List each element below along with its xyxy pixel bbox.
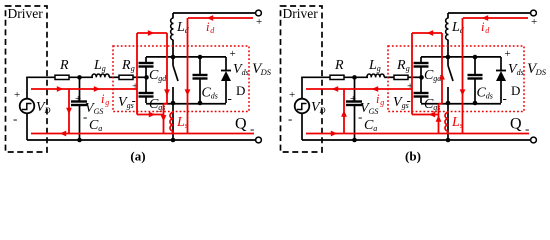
svg-text:+: +	[531, 16, 537, 28]
wire Rg to gate	[408, 76, 422, 78]
red gate loop wire (horizontal)	[31, 88, 137, 90]
wire Lg to Rg	[109, 76, 119, 78]
svg-text:a: a	[98, 124, 102, 133]
svg-text:D: D	[236, 83, 245, 98]
capacitor Cgd	[145, 57, 147, 63]
+ supply terminal	[531, 10, 537, 16]
red gate loop wire (horizontal)	[306, 88, 412, 90]
svg-text:ds: ds	[517, 68, 524, 77]
svg-text:g: g	[102, 64, 106, 73]
red source return via Ls	[439, 103, 443, 105]
+ supply terminal	[256, 10, 262, 16]
red jog to source return	[137, 114, 164, 116]
svg-text:L: L	[368, 58, 377, 73]
svg-text:a: a	[373, 124, 377, 133]
wire R to Lg	[344, 76, 368, 78]
gate node	[144, 75, 149, 80]
svg-text:L: L	[93, 58, 102, 73]
inductor Ld	[172, 13, 174, 18]
svg-text:+: +	[230, 48, 236, 60]
resistor Rg	[119, 75, 133, 79]
svg-text:GS: GS	[369, 107, 379, 116]
red drain loop top wire id	[188, 17, 253, 19]
svg-text:-: -	[288, 111, 292, 126]
svg-text:R: R	[334, 58, 344, 73]
svg-text:Q: Q	[235, 116, 247, 133]
red loop vertical at gate	[411, 33, 413, 115]
svg-text:D: D	[319, 106, 326, 115]
red drain loop top wire id	[463, 17, 528, 19]
MOSFET top wire (drain)	[146, 56, 226, 58]
red bottom return rail	[306, 133, 529, 135]
svg-text:+: +	[14, 89, 20, 101]
svg-text:Driver: Driver	[283, 6, 319, 21]
capacitor Cgs	[420, 77, 422, 93]
switch (MOSFET channel)	[172, 57, 174, 66]
source down wire through Ls	[447, 103, 449, 140]
bypass capacitor Ca branch	[354, 77, 356, 101]
svg-text:L: L	[176, 115, 185, 130]
svg-text:L: L	[451, 20, 460, 35]
body diode D	[500, 57, 502, 71]
svg-text:+: +	[350, 93, 356, 105]
source node junctions	[171, 101, 176, 106]
svg-text:g: g	[131, 64, 135, 73]
bottom rail junctions	[77, 138, 82, 143]
bottom rail wire	[27, 139, 256, 141]
wire VD to R	[26, 77, 28, 99]
svg-text:s: s	[460, 121, 463, 130]
bypass capacitor Ca branch	[79, 77, 81, 101]
svg-text:ds: ds	[211, 92, 218, 101]
svg-text:+: +	[505, 48, 511, 60]
switch (MOSFET channel)	[447, 57, 449, 66]
red loop top horizontal	[137, 32, 167, 34]
capacitor Cds	[199, 57, 201, 75]
svg-text:R: R	[396, 58, 406, 73]
body diode D	[225, 57, 227, 71]
svg-text:-: -	[13, 111, 17, 126]
svg-text:g: g	[380, 98, 384, 107]
top rail wire	[173, 12, 256, 14]
capacitor Cds	[474, 57, 476, 75]
svg-text:GS: GS	[94, 107, 104, 116]
svg-text:gd: gd	[158, 74, 167, 83]
svg-text:g: g	[406, 64, 410, 73]
red source return via Ls	[164, 103, 168, 105]
common source inductance Ls (red)	[445, 113, 448, 132]
source down wire through Ls	[172, 103, 174, 140]
svg-text:(a): (a)	[130, 149, 145, 164]
wire R to Lg	[69, 76, 93, 78]
source wire	[421, 103, 501, 105]
svg-text:-: -	[83, 109, 87, 124]
common source inductance Ls (red)	[170, 113, 173, 132]
source node junctions	[446, 101, 451, 106]
red loop beside Ca	[343, 89, 345, 134]
inductor Ld	[447, 13, 449, 18]
red bottom return rail	[31, 133, 254, 135]
inductor Lg	[92, 74, 109, 77]
red drain loop vertical	[462, 18, 464, 134]
source wire	[146, 103, 226, 105]
svg-text:R: R	[59, 58, 69, 73]
svg-text:ds: ds	[242, 68, 249, 77]
svg-text:-: -	[228, 91, 232, 106]
resistor Rg	[394, 75, 408, 79]
voltage source VD	[295, 99, 310, 114]
svg-text:Driver: Driver	[8, 6, 44, 21]
red dotted MOSFET boundary box	[388, 46, 524, 112]
red loop through switch channel	[441, 33, 443, 104]
svg-text:+: +	[289, 89, 295, 101]
svg-text:DS: DS	[535, 67, 547, 77]
red loop beside Ca	[68, 89, 70, 134]
inductor Lg	[367, 74, 384, 77]
wire VD to R	[301, 77, 303, 99]
drain node junctions	[171, 55, 176, 60]
top rail wire	[448, 12, 531, 14]
MOSFET top wire (drain)	[421, 56, 501, 58]
svg-text:gs: gs	[402, 101, 409, 110]
svg-text:D: D	[44, 106, 51, 115]
driver dashed box (b)	[281, 6, 323, 152]
svg-text:R: R	[121, 58, 131, 73]
svg-text:-: -	[358, 109, 362, 124]
svg-text:(b): (b)	[405, 149, 421, 164]
capacitor Cgs	[145, 77, 147, 93]
gate node	[419, 75, 424, 80]
svg-text:g: g	[377, 64, 381, 73]
red loop vertical at gate	[136, 33, 138, 115]
svg-text:DS: DS	[260, 67, 272, 77]
red drain loop vertical	[187, 18, 189, 134]
svg-text:L: L	[451, 115, 460, 130]
bottom rail wire	[302, 139, 531, 141]
wire Rg to gate	[133, 76, 147, 78]
svg-text:g: g	[105, 98, 109, 107]
wire VD to bottom rail	[26, 113, 28, 140]
svg-text:s: s	[185, 121, 188, 130]
svg-text:-: -	[503, 91, 507, 106]
drain node junctions	[446, 55, 451, 60]
- supply terminal	[256, 137, 262, 143]
driver dashed box (a)	[6, 6, 48, 152]
red jog to source return	[412, 114, 439, 116]
svg-text:gs: gs	[127, 101, 134, 110]
wire VD to bottom rail	[301, 113, 303, 140]
red loop top horizontal	[412, 32, 442, 34]
resistor R	[55, 75, 69, 79]
node junction (Ca branch)	[77, 75, 82, 80]
voltage source VD	[20, 99, 35, 114]
bottom rail junctions	[352, 138, 357, 143]
svg-text:Q: Q	[510, 116, 522, 133]
wire Lg to Rg	[384, 76, 394, 78]
svg-text:L: L	[176, 20, 185, 35]
svg-text:D: D	[511, 83, 520, 98]
svg-text:ds: ds	[486, 92, 493, 101]
resistor R	[330, 75, 344, 79]
red dotted MOSFET boundary box	[113, 46, 249, 112]
node junction (Ca branch)	[352, 75, 357, 80]
capacitor Cgd	[420, 57, 422, 63]
- supply terminal	[531, 137, 537, 143]
svg-text:+: +	[75, 93, 81, 105]
svg-text:+: +	[256, 16, 262, 28]
red loop through switch channel	[166, 33, 168, 104]
